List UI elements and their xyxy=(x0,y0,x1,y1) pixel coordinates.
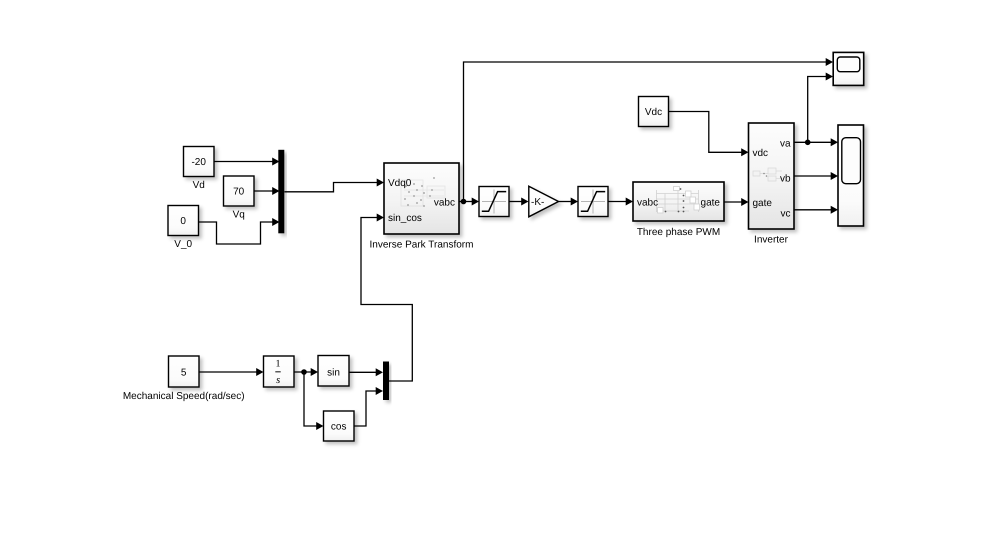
scope Scope (top, 2 inputs) xyxy=(833,52,864,85)
svg-text:70: 70 xyxy=(233,187,245,198)
svg-text:s: s xyxy=(276,375,280,386)
wire Integrator to sin xyxy=(294,368,318,376)
wire Gain to Saturation2 xyxy=(559,198,579,206)
wire Saturation2 to Three phase PWM xyxy=(609,198,634,206)
wire cos to Mux2 xyxy=(354,387,383,426)
node vabc junction xyxy=(461,199,467,205)
svg-text:Inverse Park Transform: Inverse Park Transform xyxy=(370,240,474,251)
svg-text:-K-: -K- xyxy=(531,197,544,208)
constant Vq (70) xyxy=(224,176,255,206)
integrator 1/s xyxy=(264,356,295,387)
node integrator junction xyxy=(301,369,307,375)
constant Vd (-20) xyxy=(184,147,215,177)
constant V_0 (0) xyxy=(168,206,199,236)
svg-text:Three phase PWM: Three phase PWM xyxy=(637,227,720,238)
wire Saturation1 to Gain xyxy=(509,198,529,206)
svg-text:sin_cos: sin_cos xyxy=(388,213,422,224)
wire Mux1 to Vdq0 input xyxy=(285,179,385,192)
svg-text:5: 5 xyxy=(181,368,187,379)
svg-text:0: 0 xyxy=(180,216,186,227)
block Inverter xyxy=(749,123,795,229)
wire sin to Mux2 xyxy=(349,368,383,376)
block sin xyxy=(318,356,349,387)
block Inverse Park Transform xyxy=(384,163,459,234)
wire 70 to Mux1 xyxy=(254,187,280,195)
svg-text:vdc: vdc xyxy=(753,148,769,159)
gain -K- xyxy=(529,186,559,217)
constant Vdc xyxy=(639,97,669,127)
saturation Saturation2 xyxy=(578,187,608,217)
svg-text:V_0: V_0 xyxy=(174,239,192,250)
svg-text:Vdq0: Vdq0 xyxy=(388,178,412,189)
mux Mux2 xyxy=(383,362,389,401)
svg-text:1: 1 xyxy=(276,358,281,369)
svg-text:va: va xyxy=(780,139,791,150)
svg-text:vabc: vabc xyxy=(637,198,658,209)
svg-text:-20: -20 xyxy=(191,157,206,168)
wire Three phase PWM gate to Inverter gate xyxy=(724,198,749,206)
svg-text:gate: gate xyxy=(701,198,721,209)
wire vabc output to Saturation1 xyxy=(459,198,479,206)
svg-text:Inverter: Inverter xyxy=(754,235,789,246)
svg-text:vc: vc xyxy=(781,209,791,220)
wire Vdc to Inverter vdc xyxy=(669,112,749,157)
svg-text:vb: vb xyxy=(780,174,791,185)
svg-text:cos: cos xyxy=(331,422,347,433)
constant Mechanical Speed (5) xyxy=(169,356,200,387)
wire -20 to Mux1 xyxy=(214,158,280,166)
wire junction down to cos xyxy=(304,372,324,430)
svg-text:sin: sin xyxy=(327,368,340,379)
wire Inverter vc to Scope1 input 3 xyxy=(794,206,838,214)
mux Mux1 xyxy=(278,150,284,234)
wire va junction up to Scope input 2 xyxy=(808,73,833,143)
wire 0 to Mux1 (with dip) xyxy=(199,218,280,244)
svg-text:Mechanical Speed(rad/sec): Mechanical Speed(rad/sec) xyxy=(123,391,245,402)
svg-text:Vq: Vq xyxy=(233,210,245,221)
wire 5 to Integrator xyxy=(199,368,264,376)
block Three phase PWM xyxy=(633,182,724,221)
svg-text:vabc: vabc xyxy=(434,198,455,209)
block cos xyxy=(324,411,355,441)
svg-text:Vd: Vd xyxy=(193,180,205,191)
wire vabc junction up and to Scope input 1 xyxy=(464,58,834,202)
wire Mux2 to sin_cos input xyxy=(361,214,412,382)
node va junction xyxy=(805,140,811,146)
svg-text:gate: gate xyxy=(753,198,773,209)
scope Scope1 (tall, 3 inputs) xyxy=(838,125,864,226)
wire Inverter va to Scope1 (tall) input 1 xyxy=(794,138,838,146)
saturation Saturation1 xyxy=(479,187,509,217)
wire Inverter vb to Scope1 input 2 xyxy=(794,172,838,180)
svg-text:Vdc: Vdc xyxy=(645,107,662,118)
